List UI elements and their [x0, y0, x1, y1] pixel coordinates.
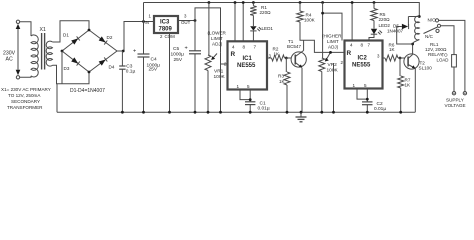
- svg-text:1000µ: 1000µ: [171, 52, 185, 58]
- wire IC1 pin 8 to rail: [242, 3, 244, 42]
- svg-text:LED1: LED1: [262, 26, 274, 31]
- svg-text:+: +: [185, 46, 188, 52]
- VR2 wiper arrow: [326, 52, 331, 60]
- wire IC2 pins 1,5 to C2: [357, 89, 367, 100]
- svg-text:220Ω: 220Ω: [260, 10, 272, 15]
- 12V supply rail: [144, 3, 420, 17]
- svg-text:0.1µ: 0.1µ: [126, 68, 136, 74]
- transformer X1 secondary winding: [46, 41, 52, 66]
- svg-text:1K: 1K: [279, 79, 286, 84]
- relay contact N/O: [435, 19, 438, 22]
- svg-text:ADJ): ADJ): [328, 45, 339, 50]
- svg-text:BC547: BC547: [287, 44, 301, 49]
- svg-text:AC: AC: [6, 57, 13, 63]
- wire pin2 node to ground rail: [220, 64, 222, 112]
- svg-text:LOAD: LOAD: [437, 58, 449, 63]
- transformer X1 primary winding: [31, 35, 38, 77]
- wire raw DC up to 12V rail: [143, 3, 145, 22]
- op-amp: timer IC2 NE555 box: [345, 41, 383, 89]
- svg-text:1: 1: [149, 14, 152, 19]
- terminal supply 1: [452, 92, 455, 95]
- svg-text:D1-D4=1N4007: D1-D4=1N4007: [70, 88, 105, 94]
- terminal: 230V AC live: [16, 20, 19, 23]
- wire IC2 pin3 out: [383, 57, 386, 59]
- svg-text:LIMIT: LIMIT: [327, 39, 339, 44]
- capacitor C1: [245, 101, 255, 103]
- relay contact N/C: [436, 29, 439, 32]
- wire: [20, 22, 31, 36]
- potentiometer VR1 100K: [208, 3, 210, 56]
- terminal: 230V AC neutral: [16, 70, 21, 75]
- junction T2 base node: [399, 57, 402, 60]
- svg-text:D4: D4: [109, 64, 115, 69]
- ground rail: [57, 111, 415, 113]
- svg-text:25V: 25V: [174, 57, 183, 63]
- svg-text:1: 1: [353, 83, 356, 88]
- wire bridge edge T-R: [89, 30, 117, 51]
- diode D1: [71, 38, 78, 44]
- diode D2: [99, 36, 106, 42]
- wire LED2 to IC2 pin 7: [369, 34, 374, 40]
- transistor T1 BC547: [291, 52, 306, 67]
- junction raw DC node: [142, 20, 145, 23]
- transistor T2 SL100: [404, 54, 419, 69]
- svg-text:4: 4: [350, 43, 353, 48]
- svg-text:TO 12V, 250mA: TO 12V, 250mA: [8, 93, 41, 98]
- svg-text:NE555: NE555: [237, 63, 256, 69]
- svg-text:1: 1: [237, 84, 240, 89]
- wire bridge edge B-R: [89, 51, 117, 72]
- junction 12V rail VR2: [321, 1, 324, 4]
- svg-text:2: 2: [341, 60, 344, 65]
- transformer X1 core: [41, 33, 43, 70]
- svg-text:N/C: N/C: [425, 34, 434, 39]
- svg-text:7: 7: [368, 43, 371, 48]
- junction on 12V rail for VR1: [208, 1, 211, 4]
- wire LED1 to IC1 pin 7: [252, 31, 254, 41]
- wire bridge right to IC3 IN: [117, 22, 154, 52]
- svg-text:100K: 100K: [327, 68, 339, 74]
- svg-text:2: 2: [160, 34, 163, 39]
- resistor R3: [285, 58, 287, 72]
- svg-text:+: +: [133, 49, 136, 55]
- resistor R2: [272, 55, 285, 61]
- svg-text:4: 4: [232, 45, 235, 50]
- resistor R6: [385, 55, 398, 61]
- svg-text:R3: R3: [278, 74, 284, 79]
- diode D3: [71, 57, 78, 63]
- ground symbol: [300, 112, 302, 117]
- svg-text:D1: D1: [63, 33, 69, 38]
- junction T1 base node: [285, 57, 288, 60]
- junction relay top: [418, 15, 421, 18]
- wire load to supply terminal: [453, 67, 455, 92]
- svg-text:LED2: LED2: [379, 23, 391, 28]
- svg-text:8: 8: [243, 45, 246, 50]
- svg-text:1K: 1K: [405, 83, 412, 88]
- svg-text:X1: X1: [40, 27, 46, 33]
- 9V rail from OUT: [195, 8, 221, 53]
- diode D4: [99, 60, 106, 66]
- svg-text:IC2: IC2: [358, 56, 368, 62]
- wire IC1 pin3 out: [267, 57, 272, 59]
- wire relay bottom to T2 collector: [413, 40, 420, 45]
- svg-text:7809: 7809: [159, 27, 173, 33]
- capacitor C5 electrolytic: [194, 21, 196, 51]
- svg-text:C5: C5: [173, 46, 179, 52]
- wire bridge edge L-B: [62, 51, 89, 72]
- svg-text:(HIGHER: (HIGHER: [322, 34, 342, 39]
- resistor R4: [299, 1, 302, 4]
- svg-text:1N4007: 1N4007: [387, 29, 404, 34]
- svg-text:SECONDARY: SECONDARY: [11, 99, 40, 104]
- svg-text:SUPPLY: SUPPLY: [446, 98, 464, 103]
- capacitor C3: [121, 51, 123, 66]
- svg-text:VR2: VR2: [328, 62, 338, 68]
- svg-text:1K: 1K: [389, 47, 396, 52]
- terminal supply 2: [463, 92, 466, 95]
- svg-text:LIMIT: LIMIT: [211, 36, 223, 41]
- svg-text:D3: D3: [64, 66, 70, 71]
- svg-text:R: R: [231, 51, 236, 58]
- svg-text:IC1: IC1: [243, 56, 253, 62]
- svg-text:ADJ): ADJ): [212, 42, 223, 47]
- svg-text:IN: IN: [145, 20, 149, 25]
- wire COM to ground: [169, 33, 171, 112]
- wire IC2 pin 8 to rail: [351, 3, 353, 41]
- wire N/O contact to supply terminal: [439, 20, 465, 91]
- svg-text:TRANSFORMER: TRANSFORMER: [7, 105, 43, 110]
- svg-text:0.01µ: 0.01µ: [258, 106, 270, 112]
- resistor R5: [373, 1, 376, 4]
- junction bridge bottom: [88, 71, 91, 74]
- capacitor C4 electrolytic: [143, 22, 145, 55]
- wire secondary bottom to bridge: [53, 65, 90, 84]
- svg-text:5: 5: [364, 83, 367, 88]
- svg-text:VOLTAGE: VOLTAGE: [445, 103, 466, 108]
- wire IC2 pin2 drop to rail: [333, 63, 335, 112]
- junction bridge top: [88, 29, 91, 32]
- wire IC1 pins 1,5 to C1: [240, 90, 250, 100]
- wire secondary top to bridge: [53, 21, 90, 42]
- LED2: [373, 21, 375, 29]
- relay RL1 coil: [415, 16, 420, 40]
- wire IC1 pin 4 to rail: [234, 3, 236, 42]
- junction bridge right: [122, 50, 125, 53]
- svg-text:5: 5: [247, 84, 250, 89]
- wire T2 collector: [412, 44, 414, 55]
- svg-text:220Ω: 220Ω: [379, 17, 391, 22]
- wire OUT: [178, 20, 195, 22]
- svg-text:NE555: NE555: [352, 63, 371, 69]
- svg-text:VR1: VR1: [214, 69, 224, 75]
- svg-text:25V: 25V: [149, 67, 158, 73]
- svg-text:100K: 100K: [304, 18, 316, 23]
- svg-text:(LOWER: (LOWER: [208, 31, 227, 36]
- svg-text:SL100: SL100: [419, 66, 433, 71]
- wire T2 emitter to ground rail end: [414, 69, 416, 113]
- svg-text:N/O: N/O: [428, 18, 437, 23]
- wire bridge left (DC-) down to ground rail: [61, 51, 63, 84]
- load box: [452, 55, 457, 67]
- wire DC- to rail: [56, 84, 58, 112]
- relay arm: [424, 27, 438, 34]
- wire pole to load: [441, 26, 454, 55]
- resistor R7: [399, 58, 401, 76]
- diode D5 freewheel: [408, 16, 419, 18]
- wire IC2 pin4 riser: [323, 13, 342, 40]
- capacitor C2: [362, 101, 373, 103]
- wire wiper to IC1 pin 2: [221, 52, 228, 64]
- LED1: [252, 15, 254, 26]
- svg-text:IC3: IC3: [160, 20, 170, 26]
- wire R4 to T1 collector and IC2 pin2 path: [300, 22, 345, 52]
- svg-text:D2: D2: [107, 35, 113, 40]
- wire: [17, 29, 19, 70]
- svg-text:1K: 1K: [274, 52, 281, 57]
- wire T1 emitter to ground: [301, 68, 303, 112]
- resistor R1: [252, 1, 255, 4]
- junction bridge left: [61, 50, 64, 53]
- svg-text:C4: C4: [151, 57, 157, 63]
- svg-text:100K: 100K: [214, 74, 226, 80]
- svg-text:X1= 230V AC PRIMARY: X1= 230V AC PRIMARY: [1, 87, 51, 92]
- op-amp: voltage regulator IC3 7809 box: [154, 16, 178, 33]
- VR1 wiper arrow: [213, 54, 218, 59]
- wire: [20, 76, 31, 77]
- svg-text:3: 3: [184, 14, 187, 19]
- potentiometer VR2 100K: [322, 3, 324, 59]
- svg-text:0.01µ: 0.01µ: [374, 106, 386, 112]
- svg-text:7: 7: [254, 45, 257, 50]
- op-amp: timer IC1 NE555 box: [228, 41, 268, 89]
- svg-text:R: R: [347, 50, 352, 57]
- svg-text:8: 8: [361, 43, 364, 48]
- wire bridge edge L-T: [62, 30, 89, 51]
- relay pole: [437, 24, 440, 27]
